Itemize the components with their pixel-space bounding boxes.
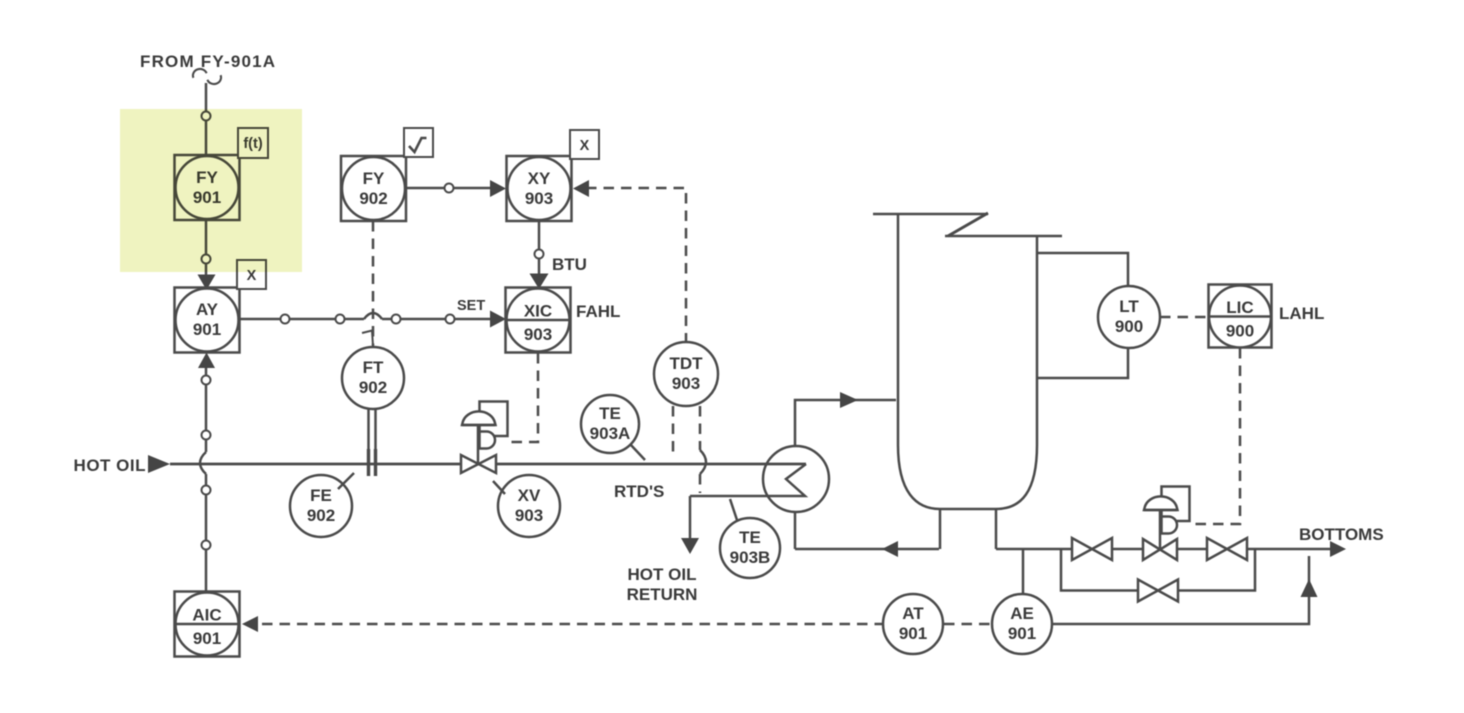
svg-text:902: 902 — [307, 506, 335, 525]
svg-text:RETURN: RETURN — [627, 585, 698, 604]
svg-text:FE: FE — [310, 486, 332, 505]
svg-text:LT: LT — [1119, 297, 1139, 316]
svg-text:900: 900 — [1226, 322, 1254, 341]
svg-text:TE: TE — [599, 404, 621, 423]
svg-text:900: 900 — [1115, 317, 1143, 336]
svg-text:903: 903 — [524, 325, 552, 344]
svg-text:901: 901 — [1008, 624, 1036, 643]
svg-text:903B: 903B — [730, 548, 771, 567]
svg-text:BOTTOMS: BOTTOMS — [1299, 525, 1384, 544]
svg-text:LIC: LIC — [1226, 298, 1253, 317]
svg-text:SET: SET — [457, 298, 485, 314]
svg-text:TE: TE — [739, 528, 761, 547]
svg-text:AE: AE — [1010, 604, 1034, 623]
svg-text:XIC: XIC — [524, 302, 552, 321]
svg-text:901: 901 — [899, 624, 927, 643]
svg-text:903A: 903A — [590, 424, 631, 443]
svg-text:HOT OIL: HOT OIL — [628, 565, 697, 584]
svg-text:AY: AY — [196, 300, 219, 319]
svg-text:HOT OIL: HOT OIL — [74, 456, 146, 475]
svg-text:901: 901 — [193, 629, 221, 648]
svg-text:FT: FT — [363, 358, 384, 377]
svg-text:FROM FY-901A: FROM FY-901A — [140, 52, 276, 71]
svg-text:RTD'S: RTD'S — [614, 482, 664, 501]
svg-text:XY: XY — [528, 169, 551, 188]
svg-text:X: X — [580, 138, 590, 154]
svg-text:BTU: BTU — [552, 255, 587, 274]
svg-text:903: 903 — [515, 506, 543, 525]
svg-text:902: 902 — [359, 378, 387, 397]
svg-text:AIC: AIC — [192, 606, 221, 625]
svg-text:FAHL: FAHL — [576, 302, 620, 321]
svg-text:XV: XV — [518, 486, 541, 505]
svg-text:901: 901 — [193, 320, 221, 339]
svg-text:TDT: TDT — [669, 354, 703, 373]
svg-text:902: 902 — [359, 189, 387, 208]
svg-text:LAHL: LAHL — [1279, 304, 1324, 323]
svg-text:AT: AT — [902, 604, 924, 623]
svg-text:FY: FY — [363, 169, 385, 188]
svg-text:903: 903 — [525, 189, 553, 208]
svg-text:903: 903 — [672, 374, 700, 393]
